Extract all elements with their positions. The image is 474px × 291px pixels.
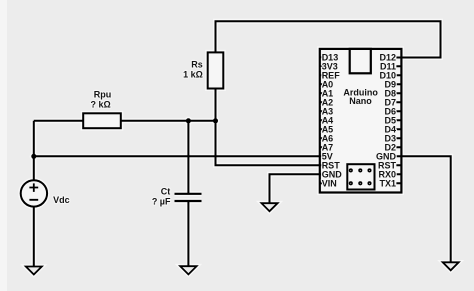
right pin ticks [396, 58, 401, 184]
wire horizontal main node [34, 120, 216, 122]
svg-text:Vdc: Vdc [53, 195, 70, 205]
left pin ticks [320, 57, 324, 183]
capacitor Ct [175, 194, 202, 201]
resistor Rs [208, 52, 224, 88]
wire 5V net [34, 155, 324, 157]
svg-text:Nano: Nano [349, 96, 372, 106]
svg-text:VIN: VIN [322, 178, 337, 188]
IC U1 Arduino Nano body [320, 49, 402, 193]
wire Ct top [187, 121, 189, 194]
wire GND pin to ground below IC [270, 174, 325, 203]
USB notch [350, 49, 371, 73]
svg-text:? kΩ: ? kΩ [90, 99, 110, 109]
ground bottom right [443, 262, 459, 270]
junction dot node Ct [186, 118, 191, 123]
wire Ct bottom [187, 202, 189, 266]
svg-text:? µF: ? µF [152, 196, 171, 206]
wire net D12 top rail [216, 21, 441, 57]
junction dot node Vdc/5V [31, 154, 36, 159]
svg-text:1 kΩ: 1 kΩ [183, 69, 203, 79]
wire left vertical from Rpu to Vdc [33, 121, 35, 180]
ground below Vdc [26, 267, 42, 275]
ground below IC [262, 203, 278, 211]
svg-text:Rs: Rs [191, 60, 203, 70]
wire RST net from junction [216, 121, 325, 165]
resistor Rpu [83, 113, 121, 128]
wire right GND net [396, 156, 451, 262]
voltage source Vdc [21, 180, 47, 206]
svg-text:Rpu: Rpu [94, 90, 112, 100]
ICSP header [347, 164, 374, 189]
wire Rs bottom to junction [215, 89, 217, 121]
svg-text:TX1: TX1 [379, 178, 396, 188]
ground below Ct [180, 266, 196, 274]
wire Vdc bottom [33, 207, 35, 266]
svg-text:Ct: Ct [161, 187, 171, 197]
junction dot node Rs [213, 118, 218, 123]
